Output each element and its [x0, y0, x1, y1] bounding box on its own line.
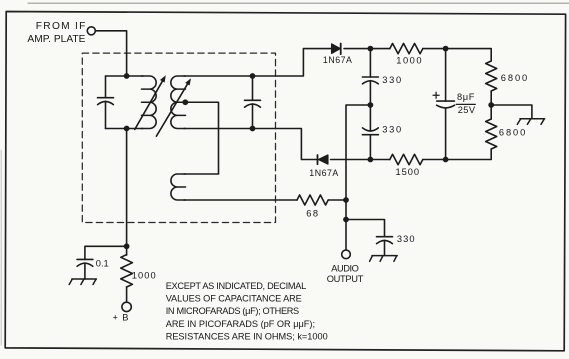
- diode D2 1N67A (bottom): [318, 155, 328, 164]
- node: electrolytic top: [443, 46, 449, 52]
- terminal: B+: [122, 302, 131, 311]
- wire: audio takeoff from cap middle: [346, 105, 370, 220]
- wire: audio node to bypass cap: [346, 220, 385, 237]
- arrow: primary tuning slug: [135, 75, 166, 129]
- capacitor 330 (lower): [362, 105, 378, 160]
- node: 6800 divider junction: [488, 102, 494, 108]
- diode D1 1N67A (top): [332, 44, 341, 55]
- svg-text:RESISTANCES ARE IN OHMS; k=100: RESISTANCES ARE IN OHMS; k=1000: [166, 332, 328, 342]
- wire: IF input to primary tank: [96, 31, 127, 76]
- wire: top row to 6800 chain: [446, 49, 492, 61]
- svg-text:AMP. PLATE: AMP. PLATE: [27, 34, 85, 45]
- coil: primary winding L1: [142, 76, 157, 129]
- svg-text:IN MICROFARADS (μF); OTHERS: IN MICROFARADS (μF); OTHERS: [166, 306, 300, 316]
- svg-text:1000: 1000: [396, 55, 421, 65]
- svg-text:25V: 25V: [458, 105, 476, 115]
- svg-text:+ B: + B: [113, 312, 129, 322]
- node: detector bottom left: [368, 157, 374, 163]
- ground: right divider: [517, 119, 544, 125]
- capacitor 0.1: [77, 259, 93, 279]
- wire: 6800 chain to bottom row: [446, 149, 492, 160]
- node: secondary cap bottom: [250, 126, 256, 132]
- node: B+ decoupling junction: [124, 243, 130, 249]
- svg-text:6800: 6800: [501, 73, 527, 83]
- resistor 68: [297, 195, 328, 205]
- node A: detector top: [368, 46, 374, 52]
- svg-text:EXCEPT AS INDICATED, DECIMAL: EXCEPT AS INDICATED, DECIMAL: [166, 281, 307, 291]
- node: electrolytic bottom: [443, 157, 449, 163]
- coil: secondary winding L2: [171, 76, 186, 129]
- resistor 1000 (B+ dropping): [121, 246, 133, 302]
- svg-text:OUTPUT: OUTPUT: [327, 274, 364, 284]
- wire: secondary top lead to top diode: [184, 49, 331, 76]
- capacitor 8uF electrolytic: [433, 49, 455, 160]
- label: 8uF 25V: [456, 92, 476, 115]
- svg-text:1500: 1500: [396, 167, 420, 177]
- svg-text:68: 68: [306, 209, 318, 219]
- node: audio line junction: [343, 197, 349, 203]
- note: component value convention: [166, 281, 328, 342]
- wire: audio node to output terminal: [345, 220, 347, 251]
- node: primary bottom junction: [124, 126, 130, 132]
- svg-text:330: 330: [397, 234, 415, 244]
- wire: primary tank top: [106, 75, 144, 77]
- wire: top diode to node A: [344, 48, 390, 50]
- node: secondary cap top: [250, 73, 256, 79]
- svg-text:6800: 6800: [499, 127, 525, 137]
- svg-text:1000: 1000: [132, 270, 156, 280]
- svg-text:330: 330: [382, 125, 401, 135]
- dashed transformer box: [82, 53, 275, 222]
- svg-text:0.1: 0.1: [96, 259, 109, 269]
- coil: tertiary winding L3: [171, 174, 186, 200]
- wire: 68 to audio node: [328, 199, 346, 201]
- capacitor 330 (upper): [362, 49, 378, 105]
- label: AUDIO OUTPUT: [327, 263, 364, 283]
- wire: primary tank bottom: [106, 128, 144, 130]
- svg-text:VALUES OF CAPACITANCE ARE: VALUES OF CAPACITANCE ARE: [166, 294, 302, 304]
- capacitor: secondary tank cap: [245, 76, 261, 129]
- terminal: audio output: [342, 250, 351, 259]
- ground: audio bypass: [370, 256, 398, 262]
- capacitor: primary tank cap: [98, 76, 114, 129]
- svg-text:FROM IF: FROM IF: [36, 21, 86, 32]
- resistor 1500: [390, 154, 423, 164]
- wire: junction to 0.1 cap: [85, 246, 127, 259]
- svg-text:8μF: 8μF: [457, 92, 475, 102]
- svg-text:AUDIO: AUDIO: [331, 263, 359, 273]
- wire: divider junction to ground: [491, 105, 532, 119]
- scan artifact: left edge streak: [0, 150, 2, 345]
- terminal: IF input: [87, 27, 95, 35]
- scan artifact: top edge streak: [28, 2, 569, 4]
- ground: B+ decoupling: [69, 279, 96, 285]
- wire: secondary bottom lead to bottom diode: [184, 129, 316, 160]
- wire: center tap to tertiary coil: [184, 102, 219, 174]
- svg-text:330: 330: [382, 75, 401, 85]
- arrow: secondary tuning slug: [156, 78, 191, 136]
- wire: 6800 junction: [490, 91, 492, 119]
- wire: 1500 to electrolytic bottom: [423, 159, 446, 161]
- svg-text:1N67A: 1N67A: [309, 168, 338, 178]
- node: audio output junction: [343, 217, 349, 223]
- node: secondary center tap: [182, 99, 188, 105]
- resistor 1000 (top): [390, 43, 423, 53]
- capacitor 330 (audio bypass): [377, 237, 393, 256]
- svg-text:1N67A: 1N67A: [323, 55, 352, 65]
- resistor 6800 (upper): [486, 61, 497, 91]
- node: cap column middle: [368, 102, 374, 108]
- wire: 1000 to electrolytic node: [423, 48, 446, 50]
- svg-text:ARE IN PICOFARADS (pF OR μμF);: ARE IN PICOFARADS (pF OR μμF);: [166, 319, 315, 329]
- node: primary top junction: [124, 73, 130, 79]
- wire: bottom diode to bottom node: [331, 159, 390, 161]
- resistor 6800 (lower): [486, 119, 497, 149]
- wire: B+ feed down from tank bottom: [126, 129, 128, 247]
- wire: tertiary bottom lead: [184, 199, 297, 201]
